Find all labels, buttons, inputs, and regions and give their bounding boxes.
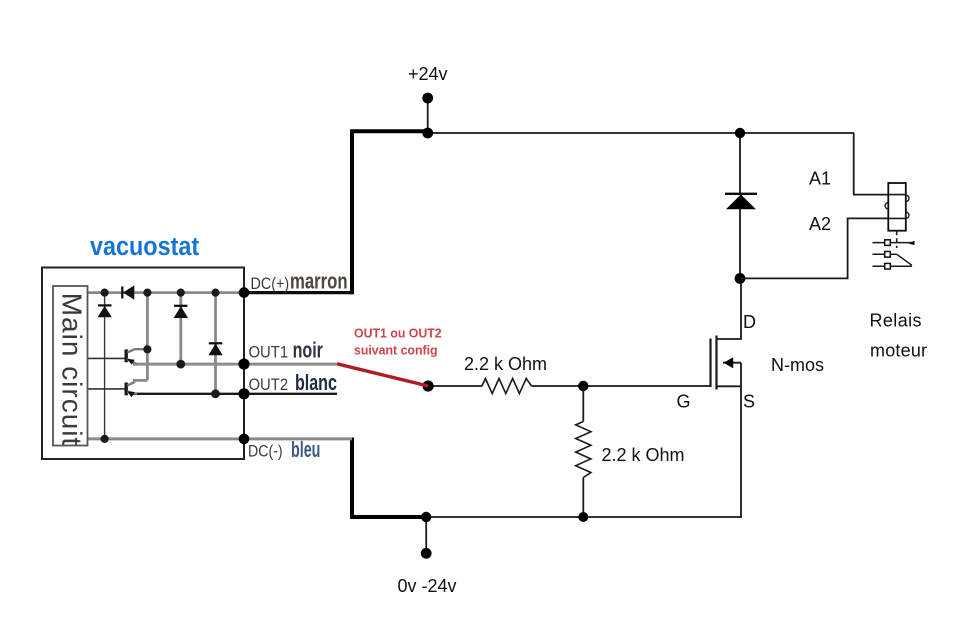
node: DC(+) terminal [239, 287, 250, 298]
node: A2/drain junction [735, 273, 746, 284]
main circuit inner box [53, 286, 88, 446]
wire: internal DC(-) gray bus [87, 437, 352, 440]
relay contact NC line [873, 242, 914, 244]
transistor N-mos gate bar [709, 339, 711, 388]
wire: R1 to R2 node [532, 385, 584, 387]
relay contact movable blade [897, 254, 912, 265]
svg-text:A1: A1 [809, 169, 831, 189]
relay coil A2 internal lead [888, 217, 906, 219]
svg-text:+24v: +24v [408, 64, 448, 84]
node: DC(-) bus tap [101, 435, 109, 443]
node: DC(+) bus tap 3 [177, 289, 185, 297]
wire: red pointer line [337, 364, 428, 386]
svg-text:A2: A2 [809, 214, 831, 234]
relay contact COM line [873, 253, 897, 255]
transistor Q2 emitter arrowhead [127, 391, 135, 397]
node: OUT1 terminal [238, 359, 249, 370]
wire: source down to 0v rail [740, 363, 742, 518]
svg-text:2.2 k Ohm: 2.2 k Ohm [464, 354, 547, 374]
wire: internal DC(+) gray bus [87, 291, 244, 294]
relay coil winding bump right lower [903, 212, 909, 218]
svg-text:0v -24v: 0v -24v [398, 576, 457, 596]
diode D2 flyback cathode bar [725, 193, 757, 195]
diode D1b horizontal triangle [123, 285, 134, 299]
diode D4 triangle [208, 344, 222, 356]
diode D2 flyback triangle [726, 195, 756, 210]
wire: OUT2 dark line [133, 393, 337, 395]
node: 0v terminal dot [421, 548, 432, 559]
wire: internal vertical branch 1 (with diode) [104, 293, 106, 439]
transistor N-mos source arrowhead [724, 357, 734, 368]
transistor Q2 emitter [127, 392, 137, 395]
svg-text:OUT2: OUT2 [249, 377, 289, 395]
wire: DC(+) black wire from vacuostat to riser [244, 291, 353, 294]
node: rail junction above diode [735, 128, 745, 138]
wire: OUT1 gray line [133, 363, 337, 366]
diode D1b horizontal cathode bar [121, 287, 123, 299]
wire: R2 bottom lead [582, 478, 584, 518]
resistor R1 2.2k horizontal zigzag [482, 378, 532, 393]
svg-text:D: D [743, 312, 756, 332]
svg-text:Relais: Relais [870, 311, 922, 331]
svg-text:N-mos: N-mos [771, 355, 824, 375]
diode D1a triangle [98, 306, 112, 317]
svg-text:suivant config: suivant config [354, 343, 438, 357]
node: gate divider junction [578, 381, 588, 391]
transistor Q2 base wire [87, 388, 126, 390]
wire: internal vertical branch 2 gray [146, 293, 149, 381]
transistor N-mos source bottom branch [717, 385, 742, 387]
diode D3 triangle [174, 306, 188, 318]
transistor N-mos channel bar [715, 336, 717, 390]
wire: R2 top lead [582, 386, 584, 422]
svg-text:marron: marron [290, 269, 348, 294]
wire: drain branch up to rail [739, 133, 741, 194]
svg-text:G: G [677, 392, 691, 412]
wire: +24v top rail thick segment [352, 131, 428, 294]
diode D3 cathode bar [174, 305, 188, 307]
wire: +24v terminal stub [427, 98, 429, 133]
wire: internal vertical branch 4 gray [214, 293, 217, 394]
svg-text:DC(-): DC(-) [248, 443, 283, 461]
relay contact NC end tip [909, 241, 915, 245]
node: OUT2 diode junction [211, 389, 220, 398]
svg-text:vacuostat: vacuostat [90, 233, 199, 261]
svg-text:OUT1: OUT1 [249, 344, 289, 362]
svg-text:blanc: blanc [295, 372, 337, 396]
wire: 0v terminal stub [425, 517, 427, 553]
svg-text:Main circuit: Main circuit [57, 293, 88, 447]
node: red line arrival node [423, 380, 434, 391]
relay coil A1 internal lead [888, 194, 906, 196]
diode D1a cathode bar [98, 304, 112, 306]
svg-text:OUT1 ou OUT2: OUT1 ou OUT2 [354, 326, 442, 340]
node: OUT2 terminal [238, 388, 249, 399]
vacuostat outer box [42, 268, 244, 460]
wire: +24v top rail thin segment [427, 132, 854, 134]
transistor Q1 base wire [87, 357, 126, 359]
svg-text:S: S [743, 392, 755, 412]
relay coil winding bump left [885, 203, 891, 209]
node: 0v rail junction [421, 512, 431, 522]
wire: 0v bottom rail thick segment [352, 438, 427, 518]
diode D4 cathode bar [209, 342, 223, 344]
node: DC(+) bus tap 1 [101, 289, 109, 297]
node: Q1 collector junction [143, 345, 151, 353]
resistor R2 2.2k vertical zigzag [576, 422, 591, 478]
transistor N-mos source arrow branch [723, 362, 741, 364]
wire: branch 2 jog to Q2 collector [134, 380, 147, 382]
node: DC(+) bus tap 4 [211, 289, 219, 297]
wire: 0v bottom rail thin segment [426, 516, 742, 518]
node: DC(-) terminal [239, 434, 250, 445]
transistor Q1 emitter arrowhead [127, 359, 135, 365]
node: OUT1 diode junction [176, 360, 185, 369]
wire: node to MOSFET gate [583, 385, 710, 387]
transistor Q1 collector [127, 349, 147, 352]
wire: internal vertical branch 3 gray [179, 293, 182, 365]
wire: diode anode down to A2 node [739, 209, 741, 278]
transistor Q2 collector [127, 382, 134, 385]
relay actuator dashed link [896, 231, 898, 248]
transistor Q1 base bar [124, 349, 127, 362]
relay contact NC terminal square [885, 240, 891, 246]
relay coil K1 body [888, 183, 906, 231]
wire: A1 wire from rail to coil [854, 133, 889, 195]
relay contact NO terminal square [885, 263, 891, 269]
relay contact COM terminal square [885, 252, 891, 258]
svg-text:moteur: moteur [870, 341, 927, 361]
relay contact NO line [873, 265, 912, 267]
wire: A2 wire from coil to drain node [740, 218, 888, 278]
transistor Q1 emitter [127, 359, 137, 364]
svg-text:noir: noir [293, 339, 324, 363]
node: R2 bottom rail junction [578, 512, 588, 522]
svg-text:2.2 k Ohm: 2.2 k Ohm [602, 445, 685, 465]
wire: gate net from red node to R1 [428, 385, 482, 387]
transistor Q2 base bar [124, 383, 127, 396]
transistor N-mos drain branch [717, 278, 742, 339]
node: +24v rail junction [422, 128, 433, 139]
relay coil winding bump right upper [903, 195, 909, 201]
svg-text:DC(+): DC(+) [251, 275, 290, 293]
node: +24v terminal dot [422, 93, 433, 104]
node: DC(+) bus tap 2 [143, 289, 151, 297]
svg-text:bleu: bleu [291, 437, 320, 462]
